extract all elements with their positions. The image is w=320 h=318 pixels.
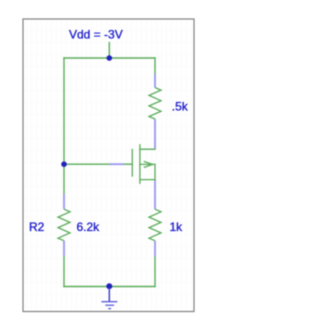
svg-text:.5k: .5k <box>172 100 189 114</box>
svg-text:Vdd = -3V: Vdd = -3V <box>69 28 123 42</box>
svg-text:1k: 1k <box>170 220 184 234</box>
svg-text:6.2k: 6.2k <box>77 220 101 234</box>
svg-text:R2: R2 <box>29 220 45 234</box>
